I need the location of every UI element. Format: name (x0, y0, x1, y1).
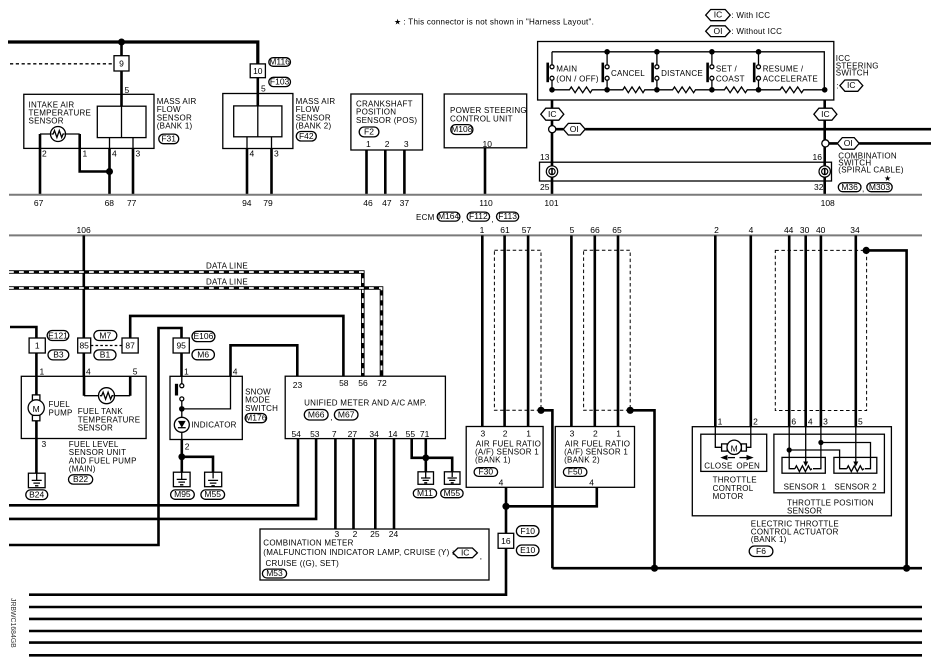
svg-text:OI: OI (714, 26, 723, 36)
svg-text:77: 77 (127, 198, 137, 208)
svg-text:UNIFIED METER AND A/C AMP.: UNIFIED METER AND A/C AMP. (304, 399, 427, 408)
svg-text:,: , (491, 215, 493, 224)
svg-text:,: , (462, 215, 464, 224)
svg-text:B24: B24 (29, 489, 44, 499)
svg-text:1: 1 (480, 225, 485, 235)
svg-text:25: 25 (370, 529, 380, 539)
svg-text:M116: M116 (269, 56, 290, 66)
svg-text:5: 5 (133, 366, 138, 376)
svg-text:RESUME /: RESUME / (763, 65, 804, 74)
svg-text:95: 95 (176, 341, 186, 351)
svg-text:4: 4 (749, 225, 754, 235)
svg-text:E121: E121 (48, 330, 68, 340)
svg-text:5: 5 (125, 85, 130, 95)
svg-text:F6: F6 (756, 546, 766, 556)
svg-text:CLOSE: CLOSE (704, 462, 732, 471)
svg-text:SWITCH: SWITCH (245, 404, 278, 413)
svg-text:54: 54 (291, 429, 301, 439)
svg-text:68: 68 (105, 198, 115, 208)
svg-text:M7: M7 (99, 330, 111, 340)
svg-text:B22: B22 (73, 474, 88, 484)
svg-text:2: 2 (185, 442, 190, 452)
svg-text:7: 7 (332, 429, 337, 439)
svg-text:57: 57 (522, 225, 532, 235)
svg-text:DATA LINE: DATA LINE (206, 278, 248, 287)
svg-text:44: 44 (784, 225, 794, 235)
svg-text:79: 79 (263, 198, 273, 208)
svg-text:1: 1 (366, 139, 371, 149)
svg-text:(MAIN): (MAIN) (69, 465, 96, 474)
svg-text:16: 16 (813, 152, 823, 162)
svg-text:OPEN: OPEN (736, 462, 760, 471)
svg-text:F10: F10 (520, 526, 535, 536)
svg-text:3: 3 (481, 429, 486, 439)
svg-text:5: 5 (858, 416, 863, 426)
svg-text:F42: F42 (299, 131, 314, 141)
svg-text:,: , (480, 552, 482, 561)
svg-text:OI: OI (570, 124, 579, 134)
svg-text::: : (836, 82, 838, 91)
svg-text:JRBWC1684GB: JRBWC1684GB (9, 598, 16, 648)
svg-text:34: 34 (850, 225, 860, 235)
svg-text:DISTANCE: DISTANCE (661, 69, 703, 78)
svg-text:56: 56 (358, 378, 368, 388)
svg-text:SENSOR: SENSOR (29, 117, 64, 126)
svg-text:37: 37 (400, 198, 410, 208)
svg-text:2: 2 (593, 429, 598, 439)
svg-text:(BANK 2): (BANK 2) (564, 455, 600, 464)
svg-text:E10: E10 (520, 545, 535, 555)
svg-text:IC: IC (714, 10, 723, 20)
svg-text:27: 27 (348, 429, 358, 439)
svg-text:M303: M303 (869, 182, 891, 192)
svg-text:4: 4 (250, 149, 255, 159)
svg-text:SENSOR: SENSOR (787, 506, 822, 515)
svg-text:: With ICC: : With ICC (731, 11, 770, 20)
svg-text:CANCEL: CANCEL (611, 69, 645, 78)
svg-text:65: 65 (612, 225, 622, 235)
svg-text:85: 85 (79, 341, 89, 351)
svg-text:F113: F113 (498, 211, 517, 221)
svg-text:46: 46 (363, 198, 373, 208)
svg-text:110: 110 (479, 198, 493, 208)
svg-text:M176: M176 (245, 413, 267, 423)
svg-text:E106: E106 (193, 331, 213, 341)
svg-text:3: 3 (42, 439, 47, 449)
svg-text:40: 40 (816, 225, 826, 235)
svg-text:87: 87 (125, 341, 135, 351)
svg-text:SET /: SET / (716, 65, 738, 74)
svg-text:COMBINATION METER: COMBINATION METER (263, 539, 353, 548)
svg-text:F2: F2 (364, 127, 374, 137)
svg-text:M36: M36 (841, 182, 858, 192)
svg-text:: Without ICC: : Without ICC (731, 27, 782, 36)
svg-text:13: 13 (540, 152, 550, 162)
svg-text:SENSOR 2: SENSOR 2 (834, 482, 877, 491)
svg-text:CONTROL UNIT: CONTROL UNIT (450, 114, 513, 123)
svg-text:M11: M11 (417, 488, 433, 498)
svg-text:(BANK 1): (BANK 1) (157, 122, 193, 131)
svg-text:(MALFUNCTION INDICATOR LAMP, C: (MALFUNCTION INDICATOR LAMP, CRUISE (Y) … (263, 548, 454, 557)
svg-text:M55: M55 (204, 489, 221, 499)
svg-text:(BANK 1): (BANK 1) (751, 535, 787, 544)
svg-text:M: M (731, 443, 738, 453)
svg-text:4: 4 (112, 149, 117, 159)
svg-text:M6: M6 (197, 349, 209, 359)
svg-text:66: 66 (590, 225, 600, 235)
svg-text:5: 5 (261, 84, 266, 94)
svg-text:PUMP: PUMP (49, 409, 73, 418)
svg-text:F30: F30 (478, 467, 493, 477)
svg-text:ACCELERATE: ACCELERATE (763, 75, 818, 84)
svg-text:(BANK 1): (BANK 1) (475, 455, 511, 464)
svg-text:5: 5 (570, 225, 575, 235)
svg-text:24: 24 (389, 529, 399, 539)
svg-text:1: 1 (40, 366, 45, 376)
svg-text:3: 3 (823, 416, 828, 426)
svg-text:INDICATOR: INDICATOR (191, 420, 237, 429)
svg-text:4: 4 (233, 366, 238, 376)
svg-text:53: 53 (310, 429, 320, 439)
svg-text:2: 2 (503, 429, 508, 439)
svg-text:★: ★ (394, 18, 401, 27)
svg-text:COAST: COAST (716, 75, 745, 84)
svg-text:3: 3 (136, 149, 141, 159)
svg-text:B3: B3 (53, 350, 64, 360)
svg-text:4: 4 (499, 478, 504, 488)
svg-text:M55: M55 (444, 488, 461, 498)
svg-text:MAIN: MAIN (556, 65, 577, 74)
svg-text:1: 1 (35, 341, 40, 351)
svg-text:(ON / OFF): (ON / OFF) (556, 75, 599, 84)
svg-text:DATA LINE: DATA LINE (206, 261, 248, 270)
svg-text:47: 47 (382, 198, 392, 208)
svg-text:3: 3 (570, 429, 575, 439)
svg-text:2: 2 (385, 139, 390, 149)
svg-text:14: 14 (388, 429, 398, 439)
svg-text:1: 1 (616, 429, 621, 439)
svg-text:M164: M164 (438, 211, 460, 221)
svg-text:M108: M108 (451, 124, 473, 134)
svg-text:4: 4 (808, 416, 813, 426)
svg-text:F103: F103 (270, 76, 290, 86)
svg-text:: This connector is not shown: : This connector is not shown in "Harnes… (404, 18, 595, 27)
svg-text:M53: M53 (266, 568, 283, 578)
svg-text:10: 10 (253, 66, 263, 76)
svg-text:,: , (330, 413, 332, 422)
svg-text:(SPIRAL CABLE): (SPIRAL CABLE) (838, 166, 904, 175)
svg-text:71: 71 (420, 429, 430, 439)
svg-text:1: 1 (83, 149, 88, 159)
svg-text:IC: IC (821, 109, 830, 119)
svg-text:1: 1 (718, 416, 723, 426)
svg-text:58: 58 (339, 378, 349, 388)
svg-text:2: 2 (714, 225, 719, 235)
svg-text:2: 2 (42, 149, 47, 159)
svg-text:(BANK 2): (BANK 2) (296, 122, 332, 131)
svg-text:3: 3 (274, 149, 279, 159)
svg-text:SENSOR (POS): SENSOR (POS) (356, 116, 417, 125)
svg-text:94: 94 (242, 198, 252, 208)
svg-text:25: 25 (540, 182, 550, 192)
svg-text:SENSOR: SENSOR (78, 424, 113, 433)
svg-text:,: , (862, 185, 864, 194)
svg-text:72: 72 (377, 378, 387, 388)
svg-text:106: 106 (77, 225, 91, 235)
svg-text:55: 55 (406, 429, 416, 439)
svg-text:4: 4 (589, 478, 594, 488)
svg-text:61: 61 (500, 225, 510, 235)
svg-text:108: 108 (821, 198, 835, 208)
svg-text:30: 30 (800, 225, 810, 235)
svg-text:M95: M95 (174, 489, 191, 499)
svg-text:1: 1 (526, 429, 531, 439)
svg-text:M: M (33, 404, 40, 414)
svg-text:6: 6 (791, 416, 796, 426)
svg-text:F31: F31 (161, 134, 176, 144)
svg-text:B1: B1 (100, 350, 111, 360)
svg-text:9: 9 (119, 58, 124, 68)
svg-text:3: 3 (404, 139, 409, 149)
svg-text:101: 101 (544, 198, 558, 208)
svg-text:2: 2 (753, 416, 758, 426)
svg-text:SENSOR 1: SENSOR 1 (784, 482, 827, 491)
svg-text:34: 34 (369, 429, 379, 439)
svg-text:23: 23 (293, 380, 303, 390)
svg-text:OI: OI (844, 138, 853, 148)
svg-text:IC: IC (847, 80, 856, 90)
svg-text:4: 4 (86, 366, 91, 376)
svg-text:67: 67 (34, 198, 44, 208)
svg-text:IC: IC (461, 548, 470, 558)
svg-text:M67: M67 (338, 410, 355, 420)
svg-text:ECM: ECM (416, 213, 435, 222)
svg-text:SWITCH: SWITCH (836, 69, 869, 78)
svg-text:M66: M66 (308, 410, 325, 420)
svg-text:32: 32 (814, 182, 824, 192)
svg-text:10: 10 (483, 139, 493, 149)
svg-text:MOTOR: MOTOR (713, 492, 744, 501)
svg-text:F50: F50 (568, 467, 583, 477)
svg-text:IC: IC (548, 109, 557, 119)
svg-text:F112: F112 (469, 211, 488, 221)
svg-text:CRUISE ((G), SET): CRUISE ((G), SET) (266, 559, 340, 568)
svg-text:1: 1 (184, 366, 189, 376)
svg-text:16: 16 (501, 536, 511, 546)
